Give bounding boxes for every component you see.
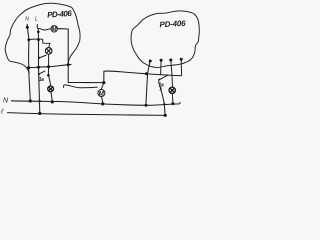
wire staircase from L wire to lamp E1: [39, 39, 50, 48]
wire continuing right below right unit: [147, 74, 182, 76]
terminal dot 2 right unit: [160, 59, 163, 62]
junction dot E2/N bus: [51, 100, 54, 103]
junction dot cross/N: [27, 66, 30, 69]
wire terminal 4 down to wire end: [180, 59, 182, 75]
motor M2 (right of left unit, above N bus): [101, 83, 103, 90]
wire lamp E2 to N bus: [51, 92, 52, 102]
switch blade lower (left unit): [39, 71, 45, 74]
junction dot at mid node: [102, 81, 105, 84]
junction dot above lamp E2: [47, 74, 50, 77]
horizontal cross wire (left unit): [26, 64, 71, 68]
wire lamp E3 to N bus: [171, 94, 174, 104]
L bus (long horizontal): [7, 113, 165, 116]
junction dot L wire crossing N bus: [38, 100, 40, 102]
enclosure outline right unit PD-406: [131, 11, 199, 68]
switch blade upper (left unit): [39, 55, 46, 58]
terminal dot on N wire: [26, 26, 29, 29]
motor M1: [51, 26, 57, 32]
terminal dot 1 right unit: [149, 60, 152, 63]
wire terminal 2 down to switch: [160, 60, 163, 74]
wire terminal 1 down to N bus: [146, 61, 150, 105]
junction dot on L wire (upper): [37, 31, 40, 34]
wire M1 right, down, and across to junction: [57, 29, 103, 83]
svg-text:1a: 1a: [39, 77, 44, 83]
svg-text:N: N: [25, 16, 29, 22]
junction dot on N wire at link: [27, 38, 30, 41]
svg-text:2: 2: [159, 87, 163, 92]
terminal dot 4 right unit: [180, 58, 183, 61]
wire mid node up and right to right unit: [104, 71, 147, 83]
svg-text:PD-406: PD-406: [47, 9, 73, 20]
lamp E2 (circle with X, dark): [48, 86, 54, 92]
wire link N to L columns: [29, 38, 39, 41]
junction dot cross/L: [37, 66, 40, 69]
lamp E3 (circle with X, dark): [169, 87, 175, 93]
junction dot N wire / N bus: [29, 99, 32, 102]
wire terminal 3 down to lamp E3: [171, 60, 173, 87]
junction dot L wire / L bus: [38, 112, 41, 115]
lamp E1 (circle with X): [45, 48, 52, 55]
enclosure outline left unit PD-406: [5, 3, 80, 72]
junction dot terminal1 / N bus: [145, 104, 148, 107]
junction dot at N bus crossing: [163, 103, 165, 105]
wire L terminal to motor M1: [38, 29, 51, 30]
wire switch down to L bus end: [158, 81, 165, 116]
N bus (long horizontal): [11, 101, 180, 106]
junction dot at L bus end: [164, 114, 167, 117]
wire lamp E1 down through cross wire to switch area: [48, 54, 50, 86]
svg-text:PD-406: PD-406: [159, 19, 186, 29]
junction dot cross/lamp column: [47, 65, 50, 68]
junction dot cross right end: [67, 63, 70, 66]
svg-text:L: L: [35, 17, 38, 23]
wire N vertical (left column): [27, 24, 30, 101]
junction dot M2 to N bus: [101, 102, 104, 105]
switch blade (right unit): [159, 75, 168, 80]
wire L vertical (left column): [37, 24, 40, 113]
junction dot right unit input: [145, 72, 148, 75]
junction dot E3 / N bus: [171, 102, 174, 105]
terminal dot 3 right unit: [169, 59, 172, 62]
stray wire toward motor M2 (left hook): [64, 85, 98, 88]
junction dot on L wire at link: [37, 38, 40, 41]
